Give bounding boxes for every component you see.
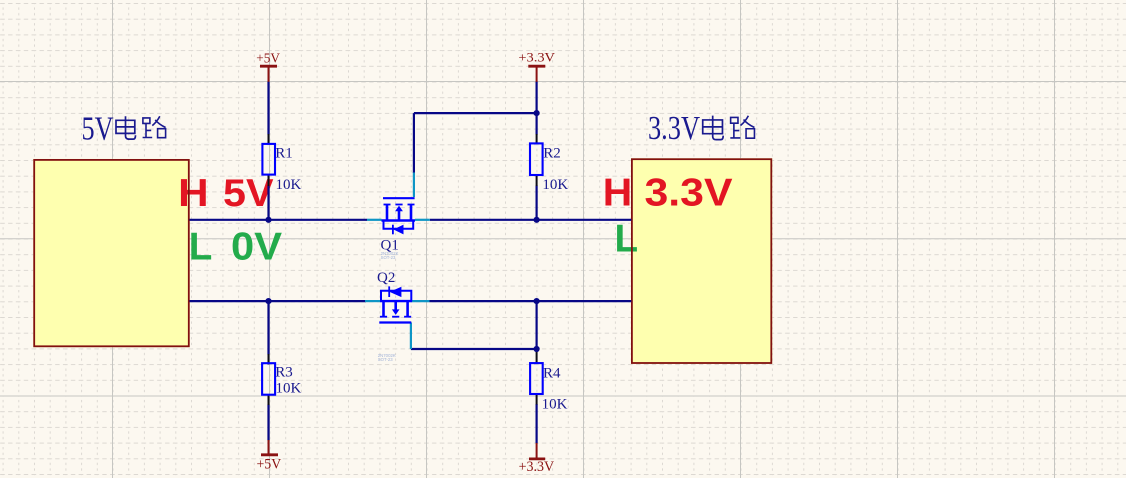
svg-text:R2: R2 [543,145,561,161]
svg-text:R4: R4 [543,366,561,382]
svg-text:10K: 10K [276,380,302,396]
svg-text:+5V: +5V [256,51,280,66]
svg-text:5V: 5V [223,172,274,215]
svg-text:H: H [178,172,209,215]
svg-text:SOT-23: SOT-23 [378,357,393,362]
svg-text:R1: R1 [275,145,293,161]
svg-text:5V: 5V [82,110,114,147]
svg-text:H: H [603,172,633,215]
svg-text:3.3V: 3.3V [648,110,700,147]
svg-text:10K: 10K [542,397,568,413]
svg-text:10K: 10K [542,177,568,193]
svg-text:Q2: Q2 [377,270,395,286]
svg-text:L: L [615,217,639,260]
svg-text:10K: 10K [276,177,302,193]
svg-text:+3.3V: +3.3V [518,50,555,65]
svg-text:SOT-23: SOT-23 [381,255,396,260]
svg-text:+3.3V: +3.3V [519,459,555,475]
svg-text:R3: R3 [275,365,293,381]
svg-text:0V: 0V [231,226,282,269]
svg-text:+5V: +5V [257,457,282,473]
svg-text:3.3V: 3.3V [645,172,733,215]
svg-text:L: L [189,226,213,269]
